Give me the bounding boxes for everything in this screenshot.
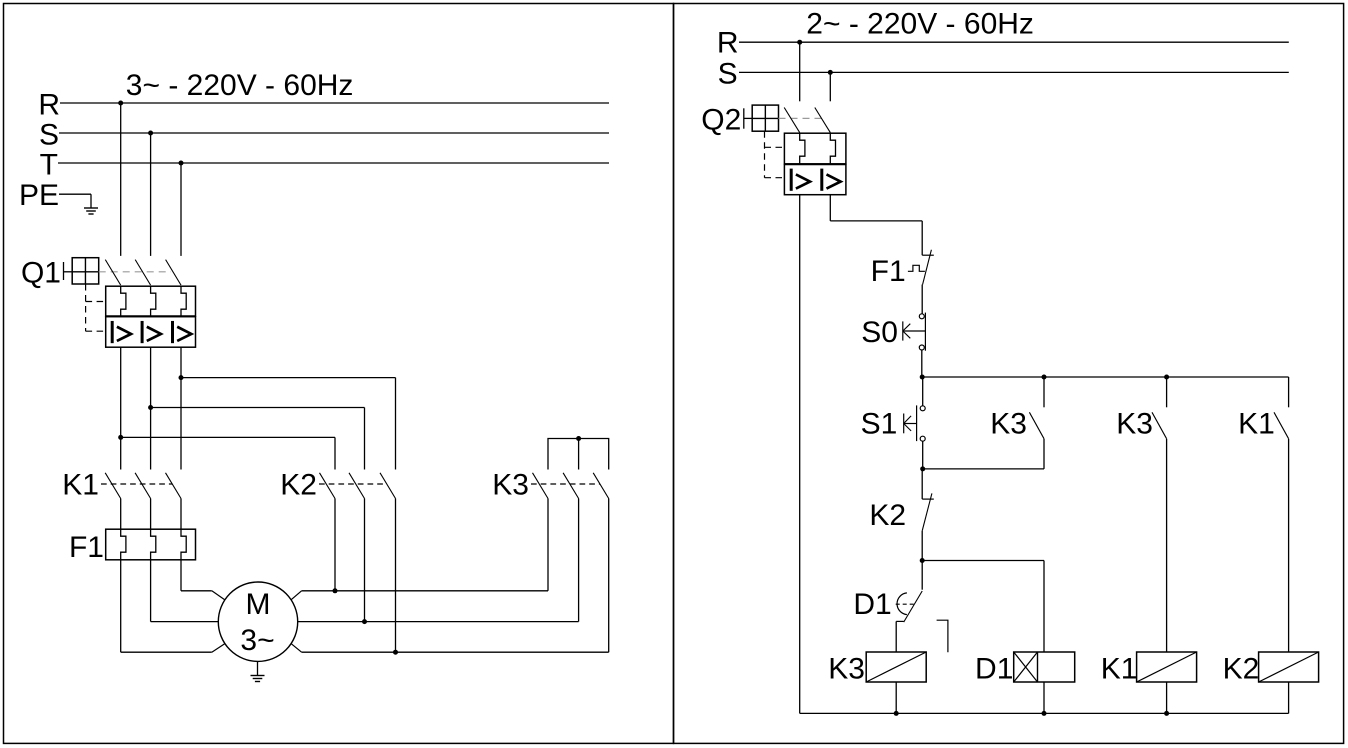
- svg-text:Q1: Q1: [21, 256, 61, 289]
- svg-text:S: S: [718, 57, 738, 90]
- svg-text:D1: D1: [853, 588, 891, 621]
- svg-text:T: T: [40, 149, 58, 182]
- svg-text:F1: F1: [69, 531, 104, 564]
- svg-text:S: S: [39, 119, 59, 152]
- svg-text:K3: K3: [828, 653, 865, 686]
- svg-text:Q2: Q2: [701, 103, 741, 136]
- svg-text:D1: D1: [975, 653, 1013, 686]
- svg-text:F1: F1: [871, 255, 906, 288]
- svg-text:K3: K3: [990, 408, 1027, 441]
- svg-text:S0: S0: [861, 316, 898, 349]
- svg-text:R: R: [717, 27, 739, 60]
- svg-text:2~ - 220V - 60Hz: 2~ - 220V - 60Hz: [806, 7, 1034, 40]
- svg-text:K1: K1: [1238, 408, 1275, 441]
- svg-text:3~: 3~: [240, 624, 274, 657]
- svg-text:K1: K1: [1101, 653, 1138, 686]
- svg-text:K3: K3: [1116, 408, 1153, 441]
- svg-text:PE: PE: [19, 179, 59, 212]
- svg-text:K2: K2: [869, 499, 906, 532]
- svg-text:R: R: [38, 89, 60, 122]
- svg-text:K1: K1: [62, 469, 99, 502]
- svg-text:K2: K2: [280, 469, 317, 502]
- svg-text:K2: K2: [1223, 653, 1260, 686]
- svg-text:K3: K3: [492, 469, 529, 502]
- svg-text:M: M: [246, 588, 271, 621]
- svg-text:S1: S1: [861, 408, 898, 441]
- svg-text:3~ - 220V - 60Hz: 3~ - 220V - 60Hz: [126, 69, 354, 102]
